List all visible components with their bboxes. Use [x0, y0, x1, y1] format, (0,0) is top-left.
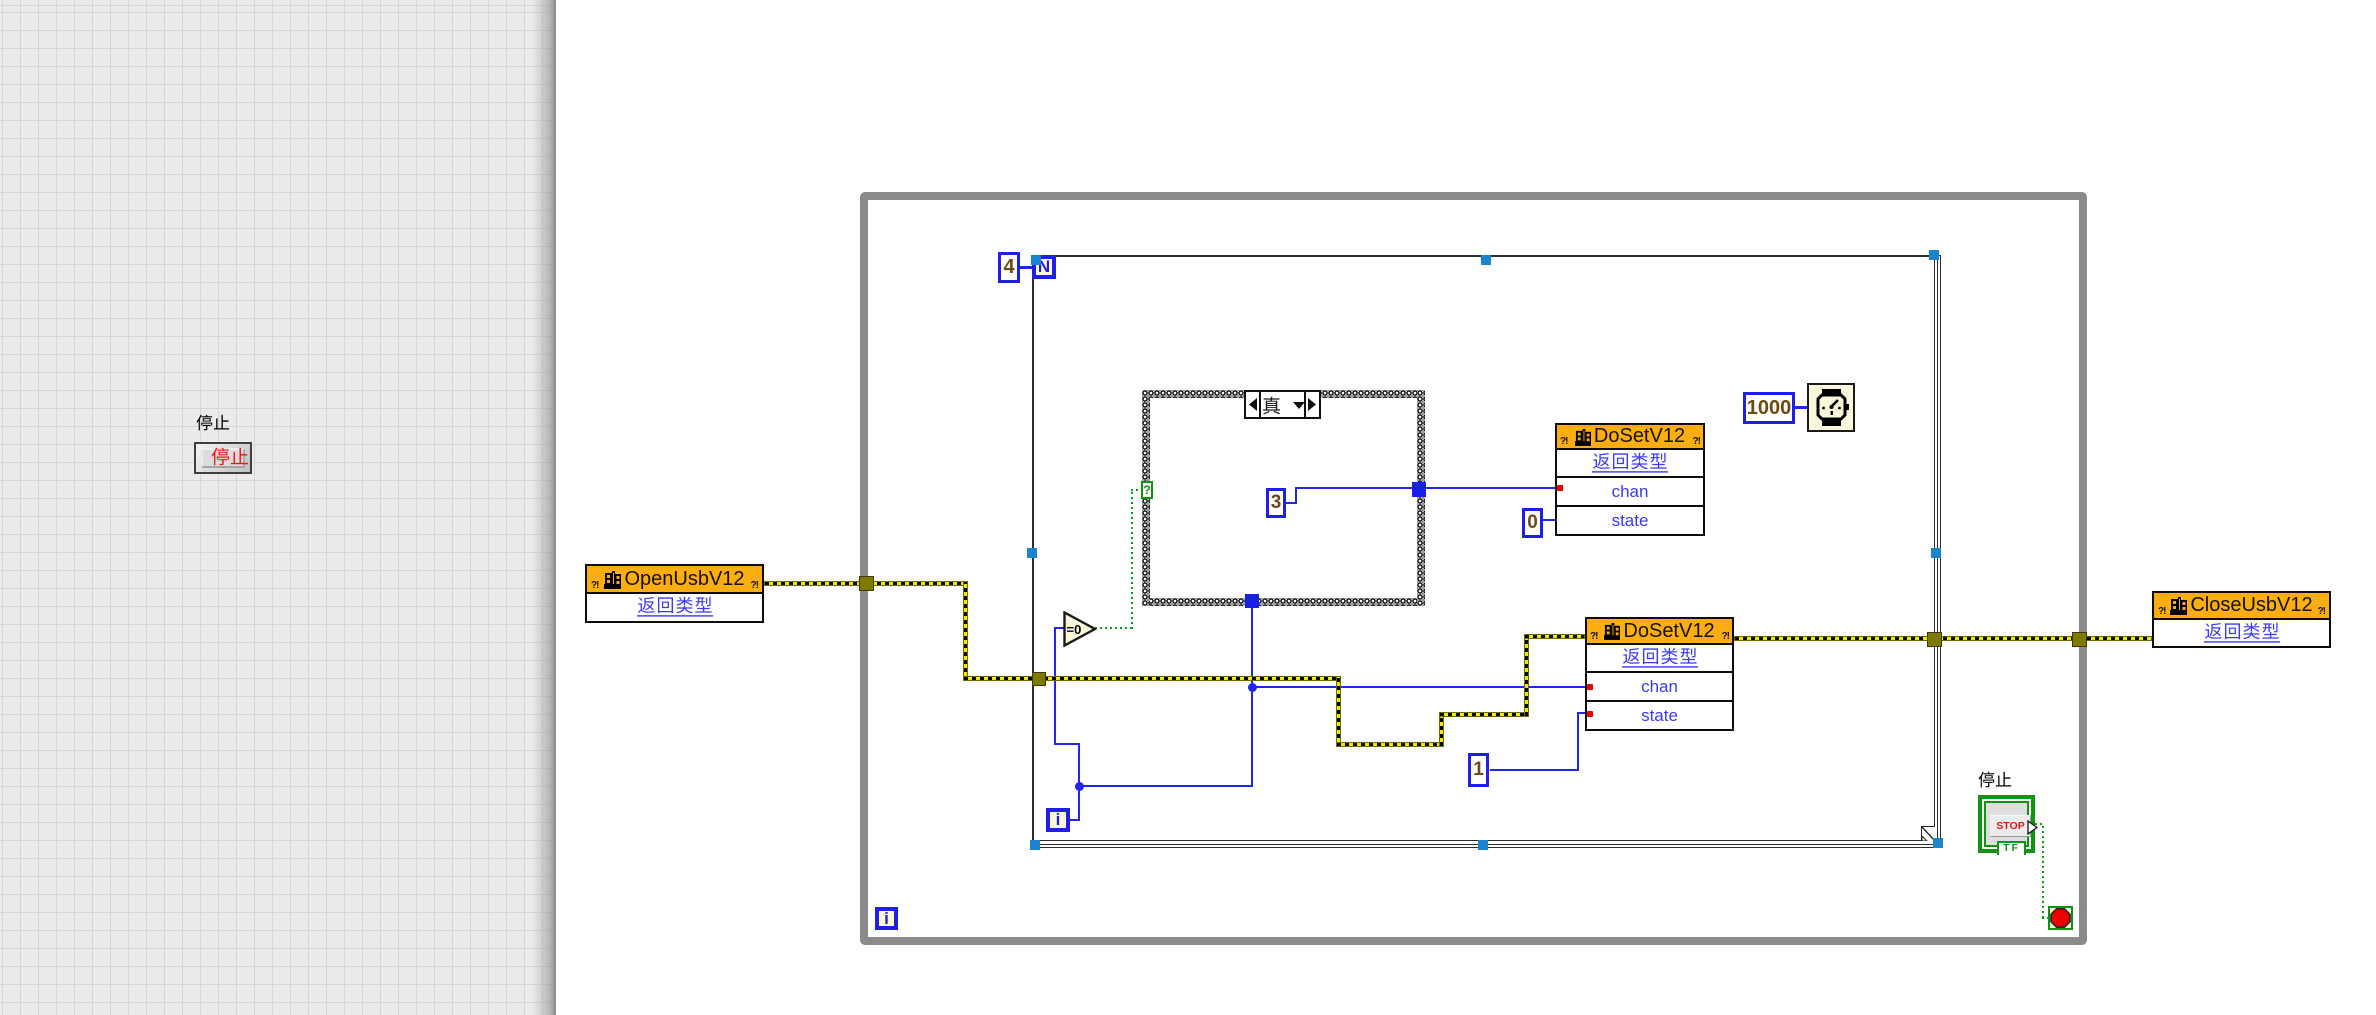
- junction dot at (1079,786): [1075, 782, 1084, 791]
- wire error-cluster horizontal mid segment: [1439, 712, 1529, 717]
- selection handle for-loop bottom-middle: [1478, 840, 1488, 850]
- N terminal: [1032, 255, 1056, 279]
- tunnel error for-loop right: [1927, 632, 1942, 647]
- for loop dog-ear corner: [1921, 826, 1935, 841]
- selection handle for-loop mid-right: [1931, 548, 1941, 558]
- wire i net into =0 input: [1054, 627, 1064, 629]
- 停止 label (diagram): [1978, 771, 2018, 791]
- selection handle for-loop top-middle: [1481, 255, 1491, 265]
- front panel right edge shadow: [532, 0, 554, 1015]
- case structure borders (checkered): [1142, 390, 1425, 398]
- wire error-cluster vertical rise to DoSetV12 #2: [1524, 634, 1529, 717]
- wire constant 4 to N count terminal: [1019, 266, 1033, 269]
- wire constant 1 horizontal: [1490, 769, 1579, 771]
- selection handle for-loop top-right: [1929, 250, 1939, 260]
- DoSetV12 #2: [1585, 617, 1734, 731]
- tunnel I32 case-structure bottom: [1245, 594, 1259, 608]
- selection handle for-loop bottom-right: [1933, 838, 1943, 848]
- wire error-cluster horizontal low segment: [1336, 742, 1444, 747]
- watch (Wait ms): [1807, 383, 1855, 432]
- STOP button: [1990, 815, 2031, 837]
- wire constant 0 to DoSetV12 #1 state: [1543, 519, 1556, 521]
- output arrow: [2027, 820, 2038, 835]
- wire boolean stop terminal stub: [2035, 823, 2043, 825]
- wire boolean vertical to loop condition: [2042, 823, 2044, 918]
- while loop border: [860, 192, 2087, 945]
- tunnel error for-loop left: [1032, 672, 1046, 686]
- wire constant 3 stub: [1286, 502, 1297, 504]
- wire constant 1 vertical rise: [1577, 712, 1579, 771]
- =0 comparison: [1063, 611, 1097, 652]
- wire error-cluster vertical step up: [1439, 712, 1444, 747]
- wire error-cluster into for-loop tunnel: [963, 676, 1341, 681]
- tunnel error while-loop left: [859, 576, 874, 591]
- tunnel I32 case-structure right: [1412, 482, 1426, 497]
- wire i net to DoSetV12 #2 chan: [1251, 686, 1586, 688]
- wire constant 1 into DoSetV12 #2 state: [1577, 712, 1586, 714]
- tunnel error while-loop right: [2072, 632, 2087, 647]
- wire error-cluster DoSetV12 #2 to CloseUsbV12: [1734, 636, 2152, 641]
- front panel stop button: [194, 442, 252, 474]
- wire error-cluster into DoSetV12 #2 error-in: [1524, 634, 1585, 639]
- condition (stop sign) terminal: [2048, 906, 2073, 930]
- selection handle for-loop bottom-left: [1030, 840, 1040, 850]
- stop boolean terminal: [1978, 795, 2035, 853]
- wire constant 1000 to Wait ms: [1795, 406, 1808, 409]
- wire error-cluster vertical jog down: [1336, 676, 1341, 747]
- wire i net horizontal to x1252: [1078, 785, 1253, 787]
- wire i net horizontal to x1054: [1054, 743, 1080, 745]
- selection handle for-loop top-left: [1031, 255, 1041, 265]
- wire error-cluster vertical drop inside while loop: [963, 581, 968, 681]
- junction dot at (1252,687): [1248, 683, 1257, 692]
- for loop border (selected) : triple lines right/bottom: [1032, 255, 1941, 848]
- TF tab: [1997, 841, 2026, 855]
- case selector label: [1244, 390, 1321, 419]
- case ? selector terminal: [1141, 481, 1153, 499]
- wire i terminal stub: [1070, 819, 1079, 821]
- front panel label 停止: [196, 414, 236, 434]
- wire boolean =0 output stub: [1095, 627, 1133, 629]
- svg-text:=0: =0: [1067, 622, 1082, 637]
- wire boolean into condition terminal: [2042, 917, 2049, 919]
- wire i net vertical rise to =0: [1054, 628, 1056, 745]
- selection handle for-loop mid-left: [1027, 548, 1037, 558]
- wire error-cluster OpenUsbV12 to while-loop tunnel: [764, 581, 968, 586]
- OpenUsbV12: [585, 564, 764, 623]
- wire boolean into case ? terminal: [1131, 489, 1141, 491]
- constants: [998, 252, 1020, 283]
- while loop i terminal: [875, 907, 898, 930]
- wire i net vertical to case bottom tunnel: [1251, 608, 1253, 787]
- wire constant 3 vertical jog: [1295, 487, 1297, 504]
- front panel grid background: [0, 0, 556, 1015]
- wire i net vertical at x1078: [1078, 744, 1080, 821]
- CloseUsbV12: [2152, 591, 2331, 648]
- wire boolean vertical to case selector: [1131, 490, 1133, 629]
- DoSetV12 #1: [1555, 423, 1705, 536]
- wire constant 3 to case tunnel to DoSetV12 #1 chan: [1295, 487, 1556, 489]
- for loop i terminal: [1046, 808, 1070, 832]
